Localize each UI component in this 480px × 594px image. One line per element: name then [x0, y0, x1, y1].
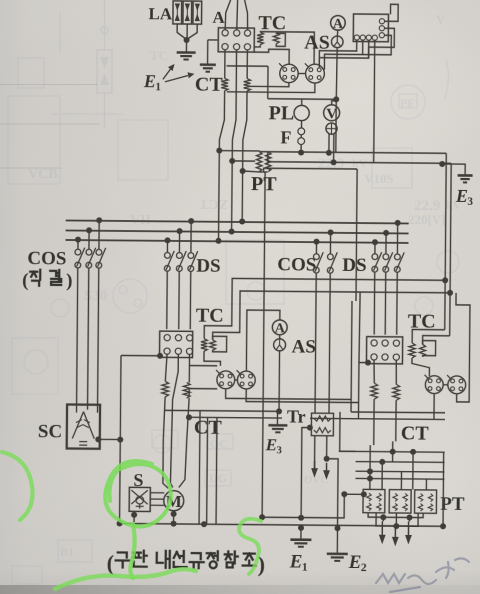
trip coil TC top with wires	[254, 32, 314, 65]
label COS (mid)	[277, 254, 316, 275]
voltmeter V with switch	[323, 101, 340, 166]
wires breaker to motor	[163, 354, 190, 488]
cutout switches COS mid (2)	[313, 229, 337, 273]
paper mottling	[0, 10, 240, 290]
PT secondary wires	[260, 152, 452, 174]
label PL	[269, 102, 295, 124]
green stroke (under caption)	[55, 569, 196, 589]
terminal block A	[218, 28, 254, 52]
green stroke (left edge)	[2, 452, 33, 520]
label Tr	[287, 406, 306, 426]
label E3 (mid)	[265, 435, 282, 456]
caption (구판 내선규정 참조)	[107, 550, 266, 576]
label E1 (bottom)	[289, 551, 308, 573]
bleed-through handwriting (bottom right)	[376, 558, 469, 592]
wire earth to line group	[440, 452, 447, 529]
ghost arrester bleed (left)	[97, 0, 112, 128]
green highlighter circle around S-M	[105, 461, 171, 526]
label DS (mid)	[342, 255, 366, 276]
disconnect switches DS left (3)	[164, 218, 198, 272]
label E3 (top right)	[455, 186, 474, 208]
load arrows (PT)	[379, 525, 412, 546]
wires into PT boxes	[370, 441, 427, 489]
ground (CT earth)	[200, 40, 218, 72]
test plug (cell1 right)	[236, 370, 255, 389]
transformer Tr	[311, 413, 333, 436]
earth wire (bottom)	[117, 520, 444, 529]
label CT (right cell)	[401, 422, 430, 444]
cutout switches COS (3)	[75, 217, 106, 268]
PT secondary links	[368, 513, 423, 530]
label DS (left)	[196, 256, 220, 277]
wire Tr neutral to earth	[301, 425, 313, 518]
label TC (left cell)	[196, 305, 224, 327]
label AS (top)	[304, 32, 330, 54]
three-phase bus bars	[66, 220, 409, 242]
label PT (top)	[251, 173, 277, 195]
ammeter A (mid)	[272, 320, 287, 337]
pilot lamp PL	[294, 99, 309, 128]
wire LA to ground junction	[177, 24, 197, 52]
left edge shading	[0, 0, 26, 594]
test plug (left)	[279, 63, 298, 82]
cell2 left wires	[351, 301, 372, 419]
cell2 plug wires	[434, 293, 470, 420]
label PT (bottom)	[440, 494, 465, 515]
ground E3 (top right)	[439, 161, 473, 183]
label (직결) under COS	[22, 270, 73, 292]
load arrows (Tr)	[311, 461, 330, 480]
plug secondary wires	[227, 73, 315, 93]
PT-group secondary lines	[338, 448, 444, 482]
label E1	[143, 71, 161, 93]
potential transformer PT coils	[256, 152, 271, 172]
wire L3 drop	[356, 169, 361, 301]
label SC	[38, 421, 62, 442]
label F	[280, 127, 291, 147]
trip coil TC (right cell)	[409, 329, 450, 376]
lightning arrester LA (3 units)	[173, 1, 202, 24]
linkage S to M	[151, 493, 165, 506]
wire risers to TC circuits	[442, 153, 455, 336]
fuse F	[298, 128, 305, 156]
wire PT earth link	[259, 172, 370, 521]
ground E1 (bottom)	[290, 515, 311, 547]
green stroke (S hook)	[239, 519, 261, 574]
label CT (top)	[195, 74, 224, 96]
cell1 plug wires	[189, 366, 359, 403]
label E2 (bottom)	[348, 552, 367, 574]
trip coil TC (left cell)	[201, 336, 227, 366]
starter switch S	[129, 487, 150, 511]
label COS	[27, 248, 66, 269]
label S	[133, 470, 143, 490]
current transformer CT elements (right cell)	[370, 360, 400, 445]
CT secondary horizontal wires	[165, 410, 445, 422]
AS selector box	[353, 14, 388, 42]
vertical wires to earth bus	[199, 411, 217, 528]
test plug (cell2 right)	[447, 375, 466, 394]
green stroke (tail below circle)	[130, 524, 134, 578]
ground E2 (bottom)	[327, 554, 348, 561]
Tr secondary wires	[315, 436, 330, 469]
feeder phase1 with CT	[219, 50, 228, 151]
label A	[212, 8, 225, 27]
wire to E2	[326, 459, 341, 554]
AS box right-side wires	[363, 4, 399, 58]
bottom edge shading	[0, 570, 480, 594]
arrows from E1 to earths	[163, 64, 195, 82]
label LA	[148, 4, 173, 23]
wires COS to Tr	[315, 273, 330, 413]
AS box bottom wires to test plugs	[318, 40, 374, 163]
label CT (left cell)	[194, 417, 223, 439]
wires DS to breaker box	[167, 271, 191, 329]
test plug (cell2 left)	[424, 375, 443, 394]
static capacitor SC	[67, 404, 100, 448]
breaker terminal box (left cell)	[159, 331, 192, 357]
test plug (cell1 left)	[216, 370, 235, 389]
ground E3 (mid)	[268, 411, 287, 432]
ammeter A (top)	[331, 15, 346, 31]
disconnect switches DS mid (3)	[372, 220, 405, 273]
label TC (right cell)	[408, 310, 436, 332]
wire link H1 to line group	[340, 412, 356, 452]
test plug (right)	[305, 63, 325, 83]
pencil rules (left margin)	[0, 85, 100, 169]
wire CT secondary to AS stem	[226, 66, 339, 102]
label AS (mid)	[292, 336, 316, 357]
ground E1 (LA earth)	[177, 52, 196, 59]
breaker terminal box (right cell)	[366, 337, 402, 364]
wire SC junction riser	[95, 352, 163, 522]
bottom-left page edge shadow	[0, 585, 480, 594]
ammeter switch AS (mid) + stem	[246, 310, 286, 414]
potential transformers PT (3 boxes)	[363, 489, 437, 513]
incoming feeder wires	[225, 0, 248, 30]
current transformer CT elements (left cell)	[162, 381, 190, 398]
wire TC feed upper	[204, 278, 445, 341]
motor M	[164, 491, 184, 511]
feeder phase3 with CT	[243, 50, 251, 171]
wire TC feed lower	[213, 291, 450, 342]
wires COS to SC	[77, 268, 99, 405]
feeder phase2	[232, 50, 236, 161]
feeder connections to buses	[215, 151, 245, 244]
label TC (top)	[258, 12, 286, 34]
wires DS to right breaker box	[374, 272, 397, 335]
PT primary taps	[216, 148, 268, 175]
wires S and M to earth wire	[131, 510, 177, 526]
ammeter switch symbol + stem	[330, 30, 343, 153]
